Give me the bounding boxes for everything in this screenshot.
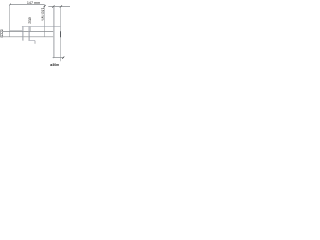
svg-text:Ø32: Ø32: [27, 17, 31, 24]
svg-text:ø30m: ø30m: [50, 63, 59, 67]
svg-text:147 mm: 147 mm: [27, 1, 40, 5]
svg-text:163 mm: 163 mm: [40, 8, 44, 21]
